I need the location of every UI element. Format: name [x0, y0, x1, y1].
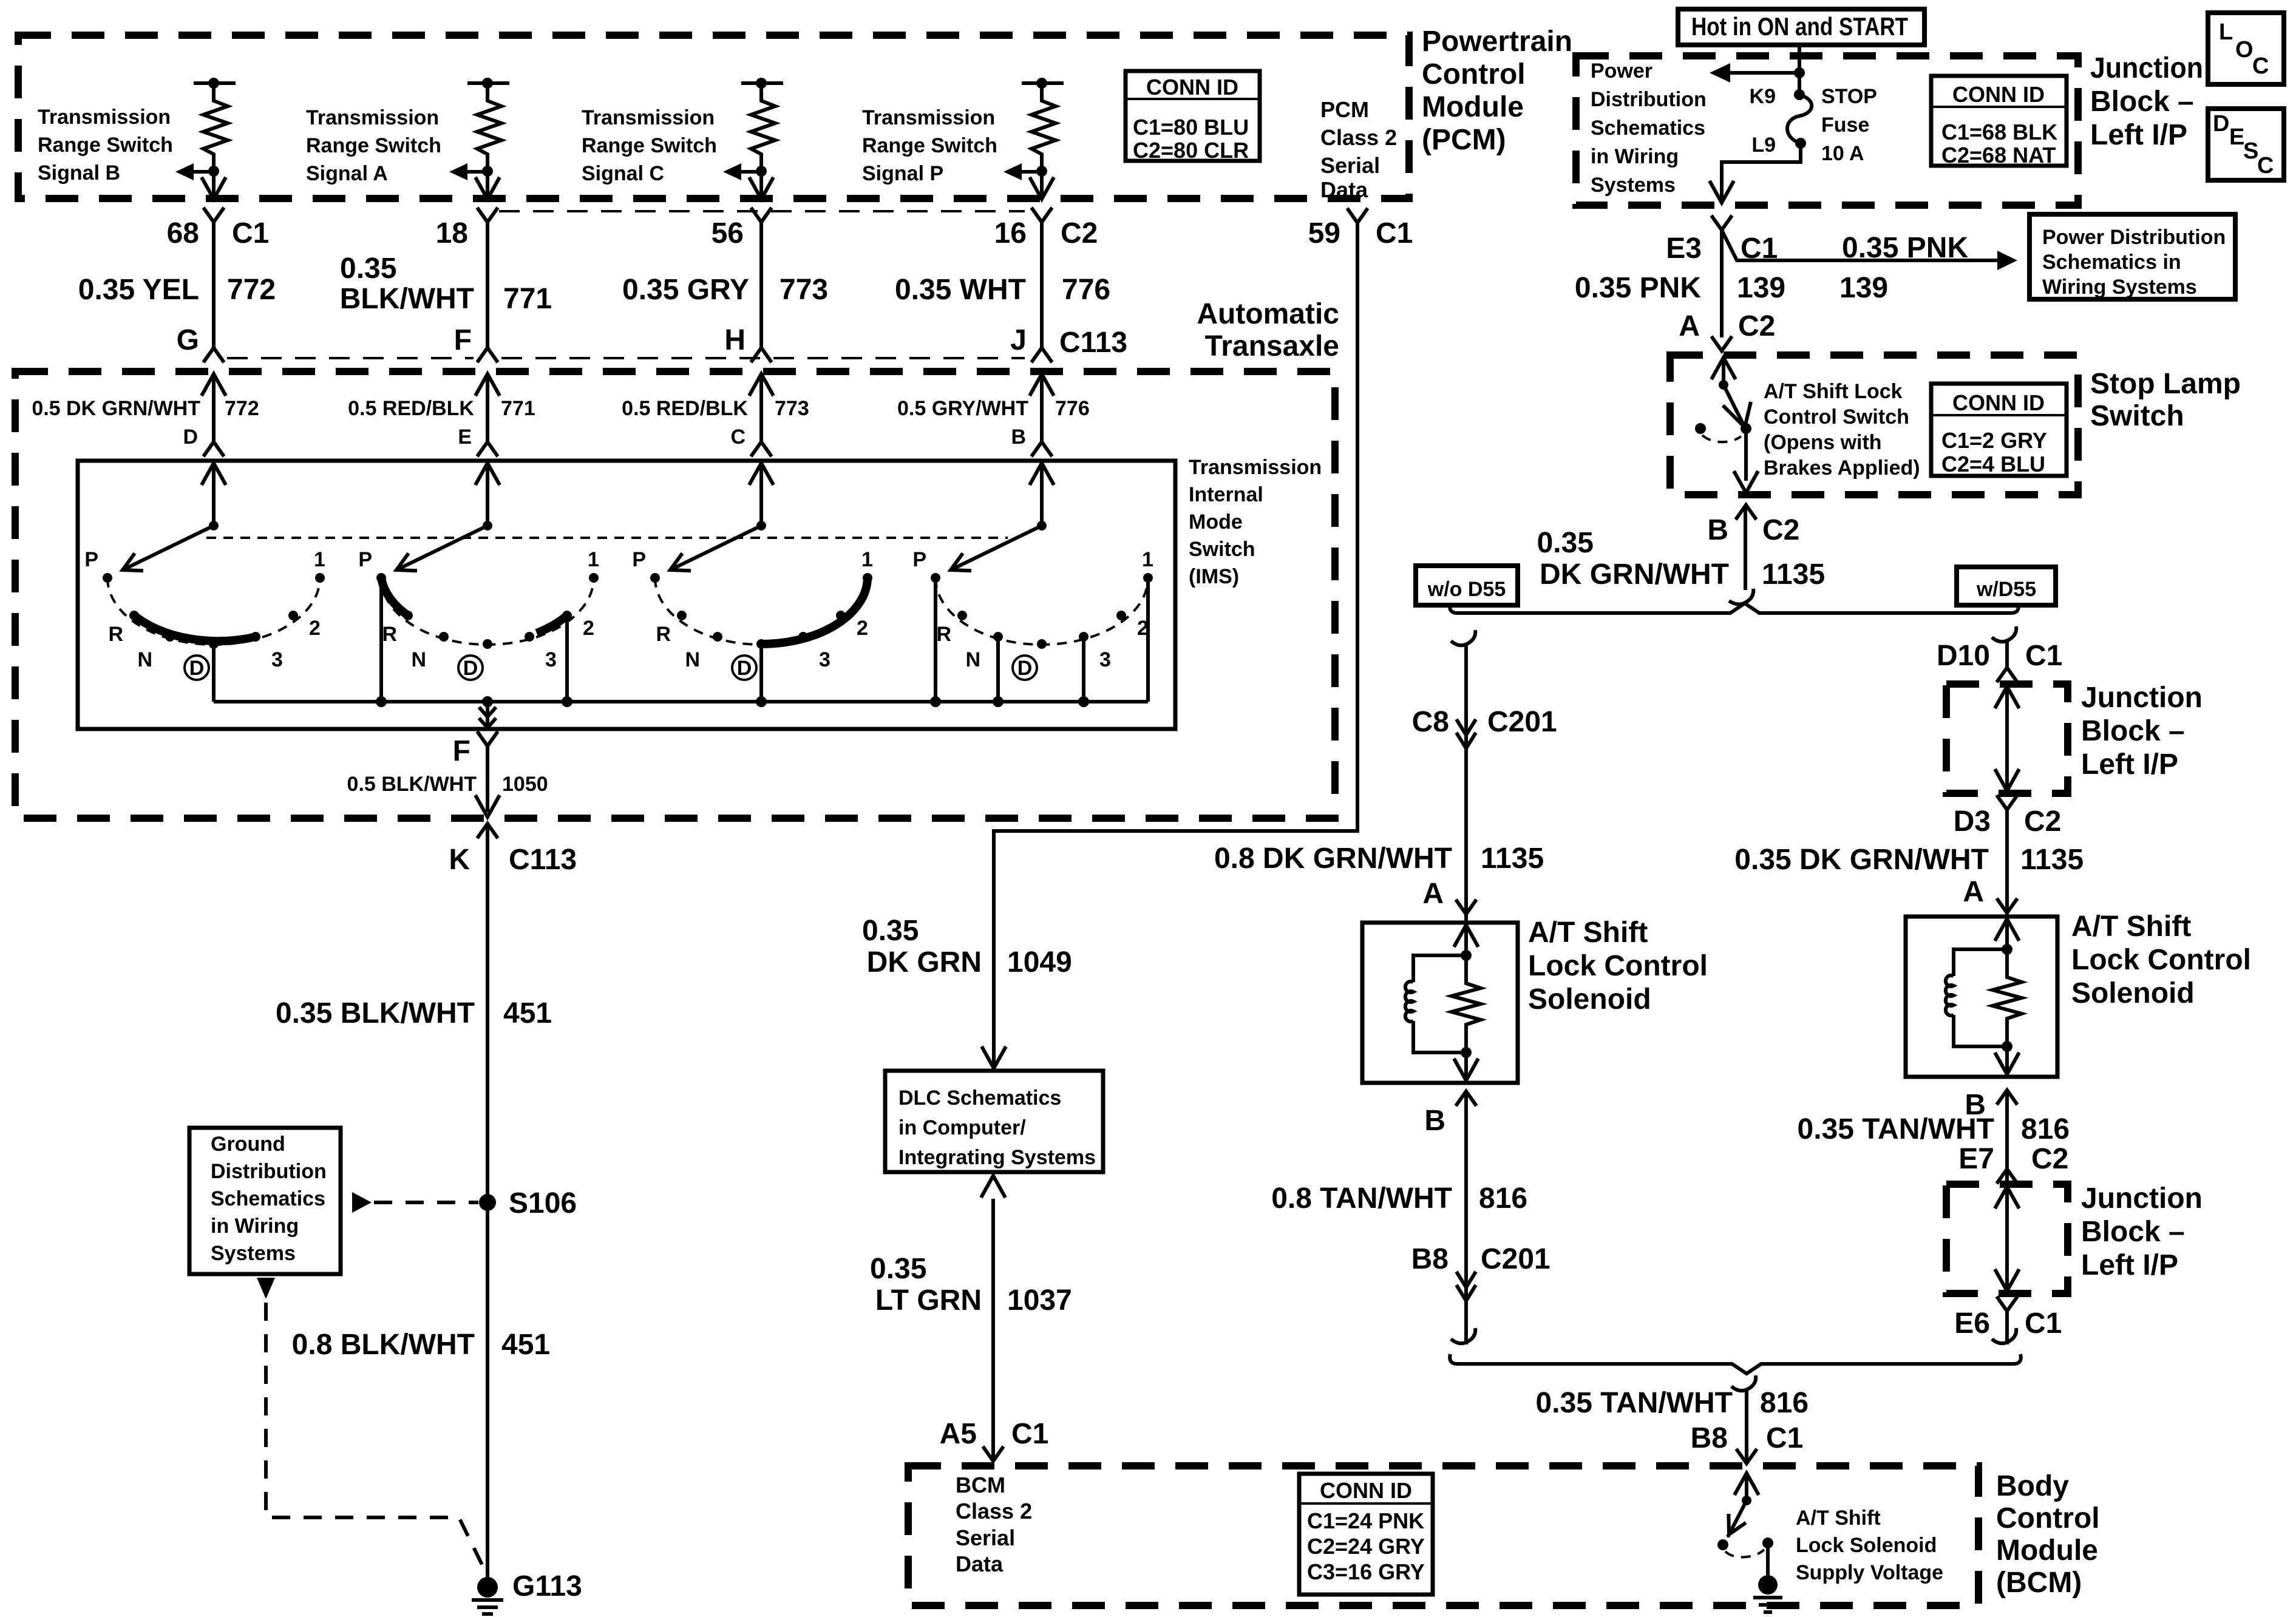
fuse: STOP Fuse 10 A (terminals K9 / L9) — [1787, 89, 1812, 149]
svg-text:Hot in ON and START: Hot in ON and START — [1691, 12, 1908, 41]
svg-text:Control: Control — [1996, 1502, 2100, 1534]
connector pin B (right solenoid) — [1965, 1089, 2017, 1121]
IMS switch 1 circled D label — [185, 656, 209, 680]
svg-text:0.35 TAN/WHT: 0.35 TAN/WHT — [1798, 1113, 1994, 1145]
IMS switch 2 entry wire and pivot — [475, 463, 500, 531]
svg-text:0.5 RED/BLK: 0.5 RED/BLK — [348, 397, 474, 420]
svg-text:D: D — [463, 657, 478, 680]
svg-text:C1: C1 — [232, 217, 269, 249]
svg-text:CONN ID: CONN ID — [1146, 75, 1238, 100]
connector PCM C2 pin 18 — [436, 208, 498, 249]
IMS switch 4 contact labels — [912, 548, 1153, 671]
svg-text:A/T Shift Lock: A/T Shift Lock — [1764, 380, 1903, 403]
svg-text:C113: C113 — [1059, 327, 1127, 359]
svg-text:A: A — [1963, 876, 1984, 908]
svg-text:C: C — [2257, 153, 2274, 178]
svg-text:0.35 YEL: 0.35 YEL — [78, 274, 199, 306]
svg-text:C2=4 BLU: C2=4 BLU — [1941, 452, 2045, 476]
wire 1135 0.35 DK GRN/WHT (right branch) — [1734, 810, 2084, 917]
svg-text:Automatic: Automatic — [1197, 298, 1339, 330]
svg-text:B: B — [1424, 1105, 1445, 1137]
svg-text:C2: C2 — [2024, 805, 2061, 838]
connector PCM C1 pin 68 — [167, 208, 270, 249]
connector BCM C1 pin A5 — [940, 1418, 1049, 1461]
wire 773 0.35 GRY — [622, 222, 828, 348]
connector C201 pin C8 — [1412, 706, 1557, 748]
reference arrow to Power Distribution Schematics — [1710, 63, 1799, 83]
svg-text:3: 3 — [1099, 648, 1111, 671]
label: BCM Class 2 Serial Data — [956, 1473, 1032, 1576]
wire 1135 0.35 DK GRN/WHT from stop lamp switch — [1537, 505, 1826, 591]
wire break symbol at w/o D55 branch top — [1451, 630, 1475, 645]
connector table CONN ID (BCM) — [1299, 1474, 1433, 1595]
svg-text:C1=2 GRY: C1=2 GRY — [1941, 428, 2047, 453]
svg-text:A: A — [1679, 310, 1700, 342]
svg-text:P: P — [358, 548, 372, 571]
connector region line: C113 thin dashed — [227, 357, 1025, 359]
svg-text:Range Switch: Range Switch — [38, 134, 173, 157]
svg-text:A/T Shift: A/T Shift — [2071, 910, 2191, 943]
svg-text:3: 3 — [819, 648, 830, 671]
svg-text:Fuse: Fuse — [1821, 114, 1869, 137]
svg-text:R: R — [382, 623, 397, 646]
label: STOP Fuse 10 A — [1821, 85, 1877, 165]
svg-text:0.35: 0.35 — [340, 253, 396, 285]
svg-text:N: N — [411, 648, 426, 671]
svg-text:DK GRN/WHT: DK GRN/WHT — [1540, 558, 1729, 591]
svg-text:0.8 BLK/WHT: 0.8 BLK/WHT — [292, 1329, 475, 1361]
connector pin A (left A/T shift lock solenoid) — [1422, 878, 1476, 914]
wire 776 0.35 WHT — [895, 222, 1110, 348]
svg-text:Block –: Block – — [2081, 1216, 2185, 1248]
svg-text:Range Switch: Range Switch — [582, 134, 717, 157]
svg-text:G: G — [177, 324, 199, 356]
svg-text:D10: D10 — [1937, 640, 1990, 672]
IMS switch 2 wiper arrow to P — [392, 526, 487, 578]
svg-text:L: L — [2219, 19, 2233, 45]
Hot in ON and START feed box — [1678, 9, 1924, 45]
svg-text:Supply Voltage: Supply Voltage — [1796, 1561, 1943, 1584]
svg-text:B: B — [1011, 425, 1026, 449]
wire: pin 68 exit arrow at PCM boundary — [202, 171, 226, 199]
resistor R2 Transmission Range Switch Signal A (in PCM) — [467, 78, 509, 177]
svg-text:Mode: Mode — [1189, 510, 1243, 534]
svg-text:Transmission: Transmission — [862, 106, 995, 129]
svg-text:C1: C1 — [2025, 1307, 2062, 1340]
svg-text:Control Switch: Control Switch — [1764, 405, 1909, 429]
svg-text:68: 68 — [167, 217, 199, 249]
svg-text:Transaxle: Transaxle — [1205, 330, 1339, 362]
IMS switch 2 contact arc (dashed) — [381, 578, 594, 645]
connector table CONN ID (Junction Block top) — [1931, 76, 2067, 168]
svg-text:0.35 DK GRN/WHT: 0.35 DK GRN/WHT — [1734, 844, 1989, 876]
svg-text:C2=80 CLR: C2=80 CLR — [1133, 138, 1249, 163]
svg-text:Control: Control — [1422, 58, 1526, 90]
merge brace joining solenoid returns — [1450, 1354, 2021, 1374]
wire 771 0.35 BLK/WHT — [340, 222, 552, 348]
wire 451 0.8 BLK/WHT label — [292, 1329, 550, 1361]
option tag box: w/D55 — [1957, 567, 2056, 605]
svg-text:Distribution: Distribution — [211, 1160, 327, 1183]
svg-text:C3=16 GRY: C3=16 GRY — [1307, 1559, 1425, 1584]
svg-text:C2: C2 — [2031, 1143, 2068, 1175]
connector Junction Block C2 pin D3 — [1954, 795, 2062, 838]
connector C113 pin K — [449, 824, 577, 876]
svg-text:B: B — [1707, 514, 1728, 546]
option split brace (w/o D55 / w/D55) — [1450, 603, 2019, 613]
svg-text:Solenoid: Solenoid — [2071, 977, 2195, 1009]
wire 451 0.35 BLK/WHT to S106 — [276, 824, 552, 1587]
svg-text:Left I/P: Left I/P — [2090, 119, 2187, 151]
svg-text:Body: Body — [1996, 1470, 2069, 1502]
svg-text:0.35: 0.35 — [870, 1253, 926, 1285]
connector IMS pin C — [730, 425, 772, 456]
label: A/T Shift Lock Control Solenoid (right) — [2071, 910, 2251, 1009]
wire 772 0.5 DK GRN/WHT entering transaxle — [32, 374, 259, 442]
label: PCM Class 2 Serial Data — [1320, 97, 1397, 202]
svg-text:w/D55: w/D55 — [1976, 578, 2036, 601]
svg-text:C1: C1 — [1011, 1418, 1048, 1450]
solenoid internals (left): coil and resistor — [1405, 925, 1481, 1080]
svg-text:Range Switch: Range Switch — [306, 134, 441, 157]
svg-text:C1: C1 — [1376, 217, 1413, 249]
wire: pin 16 exit arrow at PCM boundary — [1030, 171, 1054, 199]
connector C201 pin B8 — [1411, 1243, 1550, 1301]
reference arrow to S106 (dashed) — [352, 1192, 478, 1213]
resistor R3 Transmission Range Switch Signal C (in PCM) — [741, 78, 783, 177]
connector BCM C1 pin B8 — [1691, 1422, 1804, 1463]
svg-text:DLC Schematics: DLC Schematics — [898, 1086, 1061, 1110]
IMS switch 3 contacts — [650, 573, 872, 649]
connector IMS pin E — [458, 425, 498, 456]
label: wire 1037 0.35 LT GRN — [870, 1253, 1072, 1317]
connector pin A (right solenoid) — [1963, 876, 2017, 913]
label: A/T Shift Lock Control Switch (Opens with Brakes Applied) — [1764, 380, 1920, 480]
legend box LOC — [2208, 13, 2284, 84]
IMS switch 3 contact arc (dashed) — [655, 578, 868, 645]
svg-text:773: 773 — [775, 397, 809, 420]
IMS switch 1 contacts P R N D 3 2 1 — [103, 573, 325, 649]
connector pin B (left solenoid) — [1424, 1091, 1476, 1137]
label: Powertrain Control Module (PCM) — [1422, 25, 1572, 156]
svg-text:E: E — [2229, 124, 2244, 150]
label: Junction Block - Left I/P (middle) — [2081, 682, 2203, 781]
svg-text:C2: C2 — [1061, 217, 1098, 249]
connector Junction Block C2 pin E7 — [1958, 1143, 2068, 1184]
Power Distribution Schematics reference box — [2029, 214, 2235, 299]
svg-text:Junction: Junction — [2090, 52, 2203, 84]
option tag box: w/o D55 — [1416, 566, 1518, 605]
svg-text:CONN ID: CONN ID — [1952, 390, 2045, 415]
svg-text:C8: C8 — [1412, 706, 1449, 738]
connector PCM C2 pin 16 — [994, 208, 1098, 249]
svg-text:R: R — [936, 623, 951, 646]
svg-text:0.35 GRY: 0.35 GRY — [622, 274, 749, 306]
wire 1049 PCM class 2 serial data to DLC — [982, 223, 1357, 1068]
svg-text:0.35 PNK: 0.35 PNK — [1575, 272, 1701, 304]
wire 139 0.35 PNK down to stop lamp switch — [1575, 230, 1785, 337]
svg-text:N: N — [965, 648, 980, 671]
svg-text:Left I/P: Left I/P — [2081, 1249, 2178, 1281]
svg-text:Power: Power — [1591, 59, 1652, 83]
svg-text:in Computer/: in Computer/ — [898, 1116, 1026, 1139]
svg-text:B8: B8 — [1411, 1243, 1449, 1275]
svg-text:0.35: 0.35 — [1537, 527, 1594, 559]
svg-text:Distribution: Distribution — [1591, 88, 1707, 111]
svg-text:Signal C: Signal C — [582, 162, 664, 185]
svg-text:773: 773 — [779, 274, 828, 306]
svg-text:0.35: 0.35 — [862, 915, 919, 947]
label: Transmission Internal Mode Switch (IMS) — [1189, 456, 1322, 588]
connector PCM C1 pin 59 — [1308, 208, 1413, 249]
wire: IMS common output tap — [479, 702, 496, 728]
svg-text:Left I/P: Left I/P — [2081, 748, 2178, 781]
label: wire 1135 0.8 DK GRN/WHT — [1214, 842, 1544, 875]
svg-text:C1=68 BLK: C1=68 BLK — [1941, 120, 2057, 144]
svg-text:Integrating Systems: Integrating Systems — [898, 1146, 1096, 1169]
svg-text:Block –: Block – — [2081, 715, 2185, 747]
svg-text:C1=24 PNK: C1=24 PNK — [1307, 1508, 1424, 1533]
signal arrow: Transmission Range Switch Signal A — [449, 163, 487, 180]
svg-text:D: D — [2213, 111, 2229, 137]
svg-text:CONN ID: CONN ID — [1320, 1478, 1412, 1503]
svg-text:Schematics in: Schematics in — [2042, 251, 2181, 274]
splice S106 — [479, 1187, 577, 1219]
svg-text:A: A — [1422, 878, 1444, 910]
svg-text:A5: A5 — [940, 1418, 977, 1450]
wire 1135 w/o D55 branch down to C8 — [1464, 643, 1468, 923]
svg-text:1135: 1135 — [2020, 844, 2084, 876]
svg-text:N: N — [685, 648, 700, 671]
svg-text:16: 16 — [994, 217, 1027, 249]
svg-text:139: 139 — [1839, 272, 1888, 304]
label: Junction Block - Left I/P (top) — [2090, 52, 2203, 151]
IMS switch 4 circled D label — [1013, 656, 1037, 680]
wire: pin 18 exit arrow at PCM boundary — [475, 171, 500, 199]
switch: A/T Shift Lock Solenoid Supply Voltage (in BCM) — [1717, 1473, 1773, 1576]
svg-text:E7: E7 — [1958, 1143, 1994, 1175]
svg-text:0.5 RED/BLK: 0.5 RED/BLK — [622, 397, 748, 420]
Junction Block - Left I/P dashed box (top) — [1576, 56, 2078, 205]
IMS switch 4 contact arc (dashed) — [936, 578, 1148, 645]
wire 773 0.5 RED/BLK entering transaxle — [622, 374, 809, 442]
reference arrow from Ground Distribution box down (dashed) — [257, 1278, 486, 1572]
connector IMS pin B — [1011, 425, 1052, 456]
legend box DESC — [2208, 109, 2284, 180]
wire break symbol below merge brace — [1731, 1375, 1756, 1391]
wire 139 0.35 PNK branch to Power Distribution — [1722, 230, 2017, 304]
IMS switch 1 selected range thick arc R to 3 — [134, 615, 256, 641]
A/T Shift Lock Control Solenoid box (right) — [1906, 917, 2057, 1077]
svg-text:S: S — [2243, 138, 2258, 164]
label: wire 1049 0.35 DK GRN — [862, 915, 1072, 978]
connector Stop Lamp Switch C2 pin A — [1679, 310, 1775, 351]
svg-text:1135: 1135 — [1481, 842, 1544, 875]
Automatic Transaxle dashed box — [15, 371, 1335, 818]
svg-text:18: 18 — [436, 217, 468, 249]
IMS switch 4 contacts — [931, 573, 1153, 649]
svg-text:139: 139 — [1737, 272, 1785, 304]
svg-text:816: 816 — [2021, 1113, 2070, 1145]
IMS switch 3 entry wire and pivot — [749, 463, 773, 531]
wire break symbol at left merge — [1451, 1328, 1475, 1343]
wire 816 0.35 TAN/WHT to BCM — [1536, 1387, 1809, 1463]
IMS switch 3 wiper arrow to P — [666, 526, 761, 578]
svg-text:L9: L9 — [1751, 134, 1776, 157]
svg-text:3: 3 — [545, 648, 557, 671]
wire: E6 down to merge brace — [2005, 1311, 2009, 1344]
svg-text:Switch: Switch — [2090, 400, 2184, 432]
DLC Schematics reference box — [885, 1071, 1103, 1172]
switch: A/T Shift Lock Control Switch — [1695, 358, 1758, 493]
wire break symbol above D10 — [1992, 626, 2016, 642]
svg-text:Junction: Junction — [2081, 682, 2203, 714]
svg-text:C1: C1 — [1766, 1422, 1803, 1454]
svg-text:Module: Module — [1996, 1534, 2098, 1567]
svg-text:Ground: Ground — [211, 1133, 285, 1156]
wire 772 0.35 YEL — [78, 222, 276, 348]
svg-text:Switch: Switch — [1189, 538, 1255, 561]
resistor R4 Transmission Range Switch Signal P (in PCM) — [1022, 78, 1064, 177]
IMS switch 4 entry wire and pivot — [1030, 463, 1054, 531]
connector PCM C2 pin 56 — [712, 208, 772, 249]
svg-text:K9: K9 — [1750, 85, 1776, 108]
svg-text:in Wiring: in Wiring — [1591, 145, 1679, 168]
connector C113 pin F — [454, 324, 498, 362]
svg-text:1050: 1050 — [502, 773, 548, 796]
svg-text:(PCM): (PCM) — [1422, 124, 1506, 156]
svg-text:BLK/WHT: BLK/WHT — [340, 283, 474, 315]
connector Junction Block C1 pin E6 — [1954, 1297, 2062, 1340]
svg-text:Schematics: Schematics — [1591, 117, 1705, 140]
solenoid internals (right): coil and resistor — [1946, 919, 2022, 1074]
connector Stop Lamp Switch C2 pin B — [1707, 505, 1799, 546]
svg-text:A/T Shift: A/T Shift — [1796, 1507, 1881, 1530]
IMS switch 2 legs P and 2 to bus — [381, 578, 567, 702]
svg-text:R: R — [656, 623, 671, 646]
svg-text:(BCM): (BCM) — [1996, 1567, 2082, 1599]
svg-text:C1: C1 — [2025, 640, 2062, 672]
svg-text:F: F — [454, 324, 472, 356]
svg-text:E: E — [458, 425, 472, 449]
IMS switch 3 contact labels — [632, 548, 873, 671]
svg-text:A/T Shift: A/T Shift — [1528, 917, 1648, 949]
connector C113 pin H — [724, 324, 772, 362]
svg-text:Schematics: Schematics — [211, 1187, 325, 1210]
signal arrow: Transmission Range Switch Signal B — [175, 163, 214, 180]
svg-text:Powertrain: Powertrain — [1422, 25, 1572, 58]
svg-text:Brakes Applied): Brakes Applied) — [1764, 456, 1920, 480]
svg-text:0.5 DK GRN/WHT: 0.5 DK GRN/WHT — [32, 397, 200, 420]
svg-text:DK GRN: DK GRN — [867, 946, 982, 978]
svg-text:(Opens with: (Opens with — [1764, 431, 1882, 454]
wire 816 0.8 TAN/WHT — [1271, 1091, 1527, 1344]
Stop Lamp Switch dashed box — [1670, 355, 2078, 495]
svg-text:Wiring Systems: Wiring Systems — [2042, 276, 2197, 299]
Body Control Module dashed box — [908, 1466, 1978, 1605]
connector table CONN ID (PCM C1/C2) — [1126, 71, 1260, 163]
connector table CONN ID (Stop Lamp Switch) — [1931, 384, 2067, 476]
label: Automatic Transaxle — [1197, 298, 1339, 362]
svg-text:C201: C201 — [1487, 706, 1557, 738]
IMS switch 1 leg D contact to bus — [212, 644, 216, 702]
svg-text:816: 816 — [1760, 1387, 1809, 1419]
label: Transmission Range Switch Signal C — [582, 106, 717, 185]
connector Junction Block C1 pin E3 — [1666, 215, 1778, 265]
wire break symbol at right merge — [1992, 1328, 2016, 1343]
IMS switch 2 contact labels — [358, 548, 599, 671]
svg-text:E6: E6 — [1954, 1307, 1990, 1340]
svg-text:O: O — [2235, 37, 2254, 63]
svg-text:771: 771 — [501, 397, 535, 420]
label: A/T Shift Lock Solenoid Supply Voltage — [1796, 1507, 1943, 1584]
wire 1037 BCM to DLC — [981, 1176, 1005, 1461]
connector C113 pin J — [1010, 324, 1127, 362]
gang linkage dashed line (IMS wipers) — [206, 537, 1008, 539]
wire: fuse output to E3 — [1710, 143, 1801, 203]
svg-text:776: 776 — [1062, 274, 1110, 306]
svg-text:Solenoid: Solenoid — [1528, 983, 1651, 1015]
svg-text:0.5 BLK/WHT: 0.5 BLK/WHT — [347, 773, 477, 796]
svg-text:Power Distribution: Power Distribution — [2042, 226, 2226, 249]
svg-text:PCM: PCM — [1320, 97, 1369, 122]
connector Junction Block C1 pin D10 — [1937, 640, 2062, 682]
svg-text:1037: 1037 — [1007, 1284, 1072, 1317]
ground G113 — [472, 1570, 582, 1614]
wire 1050 0.5 BLK/WHT — [347, 746, 548, 817]
svg-text:776: 776 — [1055, 397, 1090, 420]
wire 816 0.35 TAN/WHT (right branch) — [1798, 1090, 2070, 1184]
svg-text:1: 1 — [314, 548, 325, 571]
svg-text:E3: E3 — [1666, 232, 1702, 265]
svg-text:w/o D55: w/o D55 — [1427, 578, 1506, 601]
svg-text:G113: G113 — [512, 1570, 582, 1602]
IMS switch 2 contacts — [376, 573, 599, 649]
svg-text:K: K — [449, 844, 470, 876]
svg-text:0.35 WHT: 0.35 WHT — [895, 274, 1026, 306]
svg-text:BCM: BCM — [956, 1473, 1005, 1497]
svg-text:F: F — [453, 735, 470, 767]
wire break symbol above option brace — [1729, 589, 1753, 605]
wire 771 0.5 RED/BLK entering transaxle — [348, 374, 535, 442]
svg-text:Transmission: Transmission — [1189, 456, 1322, 479]
svg-text:Data: Data — [956, 1551, 1004, 1576]
svg-text:S106: S106 — [509, 1187, 577, 1219]
svg-text:1049: 1049 — [1007, 946, 1072, 978]
ground symbol (BCM internal) — [1753, 1575, 1782, 1612]
svg-text:D: D — [183, 425, 198, 449]
svg-text:10 A: 10 A — [1821, 142, 1864, 165]
IMS switch 2 selected range thick arcs P-R and 3-2 — [381, 578, 567, 633]
svg-text:Transmission: Transmission — [38, 106, 171, 129]
svg-text:Transmission: Transmission — [582, 106, 715, 129]
label: Power Distribution Schematics in Wiring Systems (in junction block) — [1591, 59, 1707, 197]
svg-text:C: C — [730, 425, 746, 449]
svg-text:56: 56 — [712, 217, 744, 249]
svg-text:1: 1 — [861, 548, 873, 571]
svg-text:D: D — [737, 657, 752, 680]
svg-text:0.8 TAN/WHT: 0.8 TAN/WHT — [1271, 1182, 1452, 1215]
svg-text:0.35 TAN/WHT: 0.35 TAN/WHT — [1536, 1387, 1733, 1419]
svg-text:D: D — [189, 657, 205, 680]
svg-text:Lock Control: Lock Control — [1528, 950, 1708, 982]
svg-text:1: 1 — [1142, 548, 1153, 571]
Junction Block - Left I/P dashed box (bottom) — [1946, 1184, 2068, 1293]
svg-text:C113: C113 — [509, 844, 577, 876]
svg-text:C2: C2 — [1762, 514, 1799, 546]
wire: pin 56 exit arrow at PCM boundary — [749, 171, 773, 199]
PCM module dashed box (Powertrain Control Module) — [18, 35, 1409, 198]
